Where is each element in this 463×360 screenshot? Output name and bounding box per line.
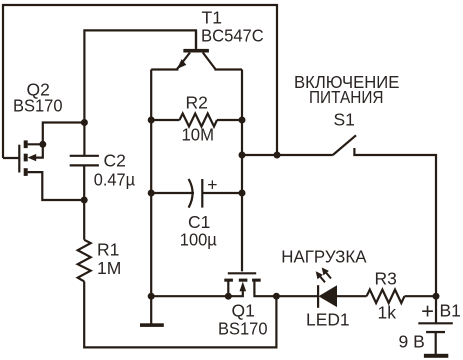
wire C1 left lead — [151, 192, 194, 194]
transistor T1 emitter arrowhead — [177, 59, 186, 69]
wire right mid vertical: T1 collector to R2-right, node, C1-right, Q1 gate — [241, 70, 243, 272]
transistor T1 collector diagonal — [203, 53, 242, 70]
wire Q1 source node row from ground node — [151, 291, 243, 296]
wire R1 bottom to bottom rail to load node — [84, 281, 276, 347]
svg-text:R1: R1 — [97, 240, 119, 260]
svg-text:ПИТАНИЯ: ПИТАНИЯ — [309, 87, 384, 107]
svg-text:B1: B1 — [440, 301, 461, 321]
wire Q2 drain lead up and over to T1 base — [28, 30, 196, 144]
wire Q2 body lead — [34, 146, 43, 158]
svg-text:R2: R2 — [186, 93, 208, 113]
capacitor C1 curved plate — [189, 179, 193, 208]
battery B1 positive plate — [418, 322, 453, 324]
wire gate rail: Q2 gate up left side, across top, down to node at S1 wire — [3, 5, 277, 158]
node dot C1 right / Q1 gate — [239, 190, 246, 197]
wire R2 right lead — [217, 119, 242, 121]
ground bar battery — [424, 354, 448, 358]
svg-text:Q1: Q1 — [232, 301, 255, 321]
node dot battery plus node — [433, 293, 440, 300]
capacitor C2 top plate — [70, 155, 99, 157]
wire ground stub at left ground — [150, 296, 152, 323]
node dot R2 right — [239, 117, 246, 124]
wire Q2 source lead — [28, 172, 85, 200]
wire battery top lead — [435, 296, 437, 322]
resistor R1 1M (vertical zigzag) — [78, 240, 91, 282]
svg-text:1k: 1k — [378, 303, 397, 323]
transistor Q1 channel bar source — [224, 279, 233, 282]
svg-text:BC547C: BC547C — [201, 26, 264, 46]
wire R3 right lead to battery node — [405, 295, 437, 297]
wire Q2 gate lead — [3, 157, 19, 159]
svg-text:+: + — [207, 175, 217, 195]
transistor Q1 channel bar body — [239, 279, 248, 282]
svg-text:S1: S1 — [334, 110, 355, 130]
node dot C1 left — [148, 190, 155, 197]
svg-text:R3: R3 — [375, 269, 397, 289]
wire C2 top lead — [83, 123, 85, 156]
svg-text:0.47µ: 0.47µ — [94, 170, 135, 190]
svg-text:T1: T1 — [202, 8, 222, 28]
svg-text:BS170: BS170 — [218, 319, 268, 339]
svg-text:LED1: LED1 — [306, 310, 350, 330]
svg-text:9 В: 9 В — [399, 332, 425, 352]
transistor Q2 channel bar source — [24, 168, 28, 176]
transistor Q2 channel bar drain — [24, 140, 28, 148]
wire left mid vertical: T1 emitter to R2-left, C1-left, ground node — [150, 70, 152, 297]
node dot C2 top / T1 base — [81, 119, 88, 126]
battery B1 negative plate — [426, 331, 445, 333]
wire LED anode to R3 — [337, 295, 367, 297]
wire battery bottom lead to ground — [435, 333, 437, 355]
capacitor C2 bottom plate — [70, 164, 99, 166]
svg-text:C2: C2 — [104, 151, 126, 171]
node dot collector row / S1 — [239, 152, 246, 159]
node dot gate rail junction — [274, 152, 281, 159]
switch S1 lever — [333, 135, 356, 155]
svg-text:100µ: 100µ — [180, 230, 217, 250]
node dot C2 bottom / R1 top — [81, 197, 88, 204]
node dot Q1 source — [225, 293, 232, 300]
wire C1 right lead — [202, 192, 242, 194]
transistor T1 emitter diagonal — [151, 53, 190, 70]
wire R2 left lead — [151, 119, 179, 121]
ground bar left — [140, 323, 164, 327]
node dot ground node — [148, 293, 155, 300]
transistor Q2 channel bar body — [24, 154, 28, 162]
LED1 emission arrow left — [316, 271, 325, 282]
resistor R2 10M (horizontal zigzag) — [180, 114, 218, 127]
wire S1 right contact to right side down to battery — [354, 148, 436, 296]
transistor Q1 channel bar drain — [252, 279, 261, 282]
node dot load node — [273, 293, 280, 300]
wire node row to S1 left contact — [242, 154, 333, 156]
svg-text:+: + — [421, 298, 434, 323]
resistor R3 1k (horizontal zigzag) — [367, 290, 405, 303]
LED1 emission arrow right — [322, 268, 331, 279]
transistor Q1 body arrow — [240, 282, 247, 292]
svg-text:1M: 1M — [97, 258, 121, 278]
transistor Q2 body arrow — [28, 154, 37, 161]
transistor T1 base bar — [183, 49, 209, 53]
capacitor C1 straight plate — [201, 179, 203, 208]
LED1 cathode bar — [317, 285, 319, 308]
transistor T1 base lead — [195, 30, 197, 49]
svg-text:10M: 10M — [182, 125, 215, 145]
LED1 triangle — [319, 285, 338, 307]
transistor Q1 gate electrode — [228, 272, 256, 274]
svg-text:НАГРУЗКА: НАГРУЗКА — [281, 247, 367, 267]
node dot R2 left — [148, 117, 155, 124]
wire C2 bottom lead / R1 top — [83, 166, 85, 240]
wire Q1 source lead — [227, 282, 229, 297]
svg-text:BS170: BS170 — [13, 96, 63, 116]
transistor Q2 gate electrode — [18, 145, 20, 173]
wire Q1 drain lead to LED — [254, 282, 318, 297]
node dot Q2 drain-body junction — [39, 141, 46, 148]
